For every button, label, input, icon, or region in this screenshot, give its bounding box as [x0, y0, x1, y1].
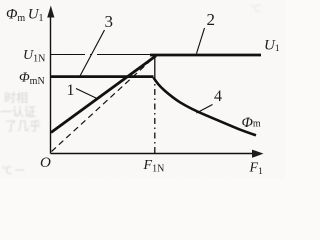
x-axis arrowhead [252, 150, 264, 158]
x-axis [51, 153, 254, 155]
faint page bleed-through marks (left margin) [0, 4, 261, 177]
U1N dash-dot level line [51, 54, 151, 56]
vertical line at F1N: solid upper part [154, 57, 156, 79]
vertical dash-dot line at F1N [154, 78, 156, 153]
svg-text:1: 1 [67, 82, 75, 99]
svg-text:O: O [40, 155, 51, 171]
y-axis [50, 15, 52, 154]
leader line for label 4 [197, 105, 213, 114]
dashed diagonal (U1 without compensation, from origin) [52, 57, 156, 152]
svg-text:2: 2 [207, 10, 216, 29]
curve 1: U1 rising diagonal (with boost) [51, 56, 156, 133]
svg-text:4: 4 [214, 88, 222, 105]
flux level PhimN thick line (curve 3 flat part) [51, 75, 154, 78]
leader line for label 2 [197, 28, 205, 54]
y-axis arrowhead [47, 6, 54, 18]
curve 4: flux decreasing curve [154, 78, 257, 136]
paper background [0, 0, 285, 179]
leader line for label 3 [80, 30, 105, 76]
svg-text:3: 3 [105, 12, 114, 31]
leader line for label 1 [76, 89, 97, 99]
curve 2: U1 constant thick line [150, 54, 261, 57]
